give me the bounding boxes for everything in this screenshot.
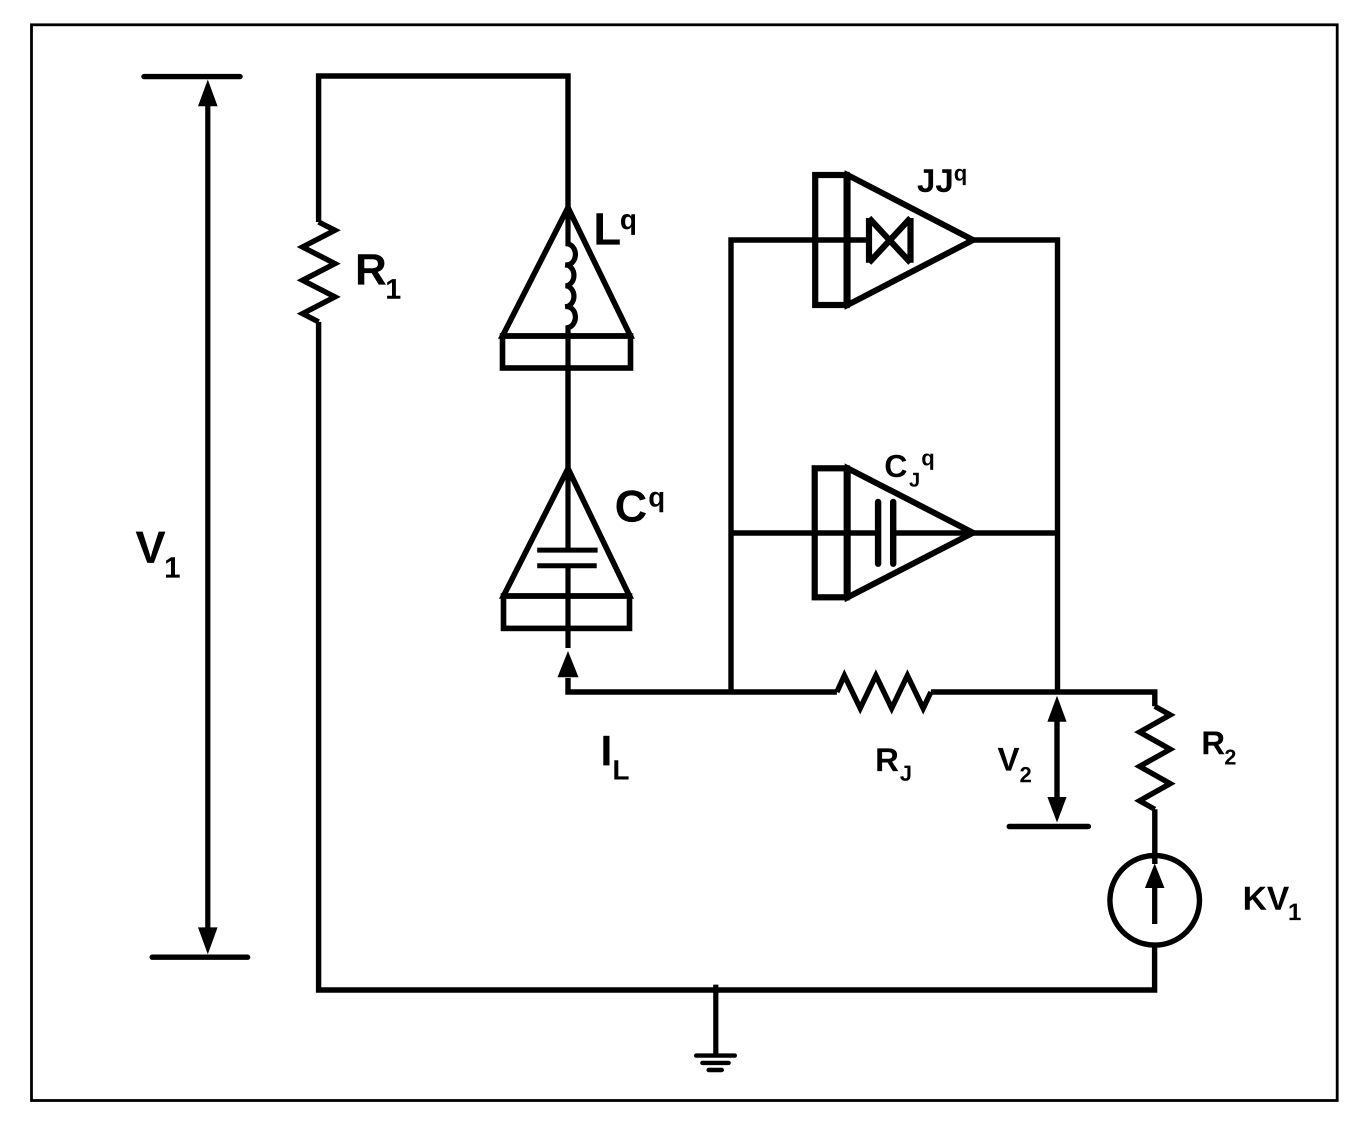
label KV1 — [1245, 887, 1301, 920]
current source KV1 — [1110, 856, 1200, 946]
wire bottom node (R1 lead, bottom rail, KV1 lead) — [319, 322, 1155, 990]
inductor Lq (quantum inductance symbol) — [503, 208, 631, 371]
label R1 — [358, 254, 401, 298]
wire JJq output and right riser — [972, 240, 1058, 692]
current arrow IL and wire to node — [558, 651, 837, 692]
resistor R2 — [1140, 706, 1171, 864]
wire left riser and JJq input — [731, 240, 871, 692]
label Cq — [617, 490, 664, 522]
capacitor CJq (junction capacitance) — [815, 468, 973, 597]
ground — [696, 985, 735, 1070]
wire node to R2 — [931, 692, 1155, 706]
label V2 — [998, 748, 1031, 782]
capacitor Cq (quantum capacitance symbol) — [504, 469, 630, 649]
wire top node — [319, 76, 568, 222]
Josephson junction JJq — [815, 175, 973, 305]
label V1 — [136, 532, 180, 578]
label R2 — [1204, 732, 1236, 765]
label IL — [603, 736, 628, 780]
label CJq — [886, 454, 934, 487]
wire Lq to Cq — [565, 368, 570, 470]
label Lq — [596, 213, 635, 244]
wire CJq input — [731, 530, 878, 535]
label JJq — [918, 169, 966, 193]
resistor RJ — [837, 676, 931, 709]
annotation V2 — [1009, 696, 1088, 827]
label RJ — [877, 748, 910, 781]
annotation V1 — [144, 77, 248, 958]
wire CJq output — [893, 530, 1057, 535]
resistor R1 — [303, 222, 335, 322]
